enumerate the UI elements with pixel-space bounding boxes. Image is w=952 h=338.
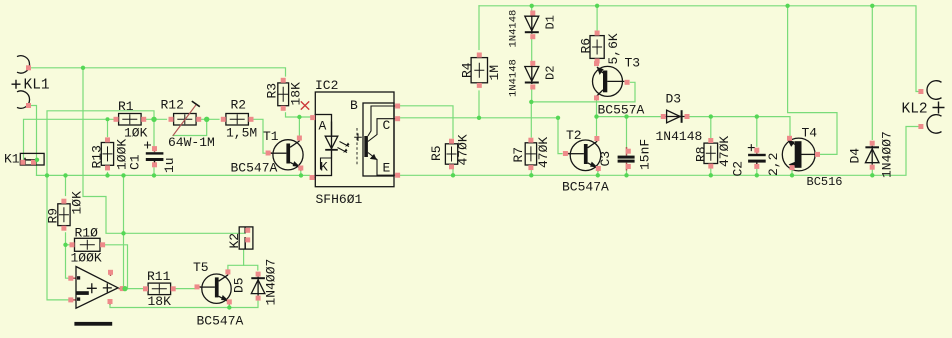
svg-text:1N4148: 1N4148 [508, 10, 520, 48]
svg-text:IC2: IC2 [315, 78, 338, 93]
svg-text:D2: D2 [544, 66, 558, 80]
svg-text:BC516: BC516 [807, 175, 843, 189]
svg-text:R1: R1 [118, 99, 134, 114]
svg-text:A: A [319, 119, 327, 134]
svg-text:R5: R5 [429, 145, 444, 161]
svg-text:BC547A: BC547A [197, 314, 244, 329]
svg-text:1N4ØØ7: 1N4ØØ7 [880, 131, 895, 178]
svg-text:T2: T2 [566, 128, 582, 143]
svg-text:B: B [350, 98, 358, 113]
svg-text:R11: R11 [147, 269, 171, 284]
svg-text:R2: R2 [231, 98, 247, 113]
svg-text:D1: D1 [544, 15, 558, 29]
svg-text:15nF: 15nF [638, 139, 653, 170]
svg-text:R8: R8 [694, 146, 709, 162]
svg-text:1ØK: 1ØK [70, 191, 85, 215]
svg-text:C2: C2 [731, 161, 746, 177]
svg-text:64W-1M: 64W-1M [168, 135, 215, 150]
svg-text:47ØK: 47ØK [456, 134, 471, 165]
svg-text:BC557A: BC557A [598, 103, 645, 118]
svg-text:E: E [383, 161, 391, 176]
svg-text:BC547A: BC547A [231, 161, 278, 176]
svg-text:5,6K: 5,6K [606, 33, 621, 64]
svg-text:C: C [383, 118, 391, 133]
svg-text:1ØØK: 1ØØK [71, 251, 102, 266]
svg-text:47ØK: 47ØK [536, 137, 551, 168]
svg-text:D5: D5 [232, 277, 247, 293]
svg-text:R4: R4 [460, 62, 475, 78]
svg-text:K1: K1 [4, 152, 20, 167]
svg-text:1N4148: 1N4148 [508, 59, 520, 97]
svg-text:R7: R7 [511, 147, 526, 163]
svg-text:R6: R6 [579, 38, 594, 54]
svg-text:K: K [320, 160, 328, 175]
svg-text:1N4148: 1N4148 [656, 129, 703, 144]
svg-text:18K: 18K [289, 82, 304, 106]
svg-text:BC547A: BC547A [562, 180, 609, 195]
svg-text:R9: R9 [46, 208, 61, 224]
svg-text:C3: C3 [598, 151, 613, 167]
svg-text:18K: 18K [148, 294, 172, 309]
svg-text:1,5M: 1,5M [226, 126, 257, 141]
svg-text:T3: T3 [625, 56, 641, 71]
svg-text:T4: T4 [802, 126, 818, 141]
svg-text:1M: 1M [487, 65, 502, 81]
svg-text:SFH6Ø1: SFH6Ø1 [316, 192, 363, 207]
svg-text:1N4ØØ7: 1N4ØØ7 [264, 259, 279, 306]
svg-text:KL2: KL2 [902, 102, 928, 118]
svg-text:K2: K2 [227, 233, 242, 249]
svg-text:1u: 1u [162, 157, 177, 173]
svg-text:1ØK: 1ØK [124, 126, 148, 141]
svg-text:R12: R12 [161, 98, 184, 113]
svg-text:R1Ø: R1Ø [75, 226, 99, 241]
svg-text:C1: C1 [128, 154, 143, 170]
svg-text:KL1: KL1 [24, 78, 50, 94]
svg-text:R13: R13 [89, 145, 104, 168]
svg-text:D4: D4 [848, 148, 863, 164]
svg-text:2,2: 2,2 [766, 153, 781, 176]
svg-text:R3: R3 [265, 83, 280, 99]
svg-text:T5: T5 [193, 260, 209, 275]
svg-text:T1: T1 [263, 129, 279, 144]
svg-text:D3: D3 [666, 92, 682, 107]
